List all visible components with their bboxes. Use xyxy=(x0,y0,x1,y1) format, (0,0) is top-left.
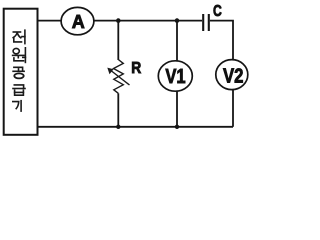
wire: V1 branch bottom xyxy=(176,91,178,127)
svg-text:A: A xyxy=(72,12,85,32)
power supply box PS1 xyxy=(4,9,38,135)
rheostat arrow across R xyxy=(107,68,129,85)
wire: V1 branch top xyxy=(176,21,178,61)
wire: box top to ammeter xyxy=(38,20,62,22)
svg-text:V1: V1 xyxy=(165,65,185,88)
급 xyxy=(13,85,25,95)
wire: bottom rail xyxy=(38,126,234,128)
wire: capacitor to V2 top corner xyxy=(210,21,233,60)
원 xyxy=(13,48,26,63)
node: junction resistor branch xyxy=(116,18,121,23)
voltmeter V2 xyxy=(216,60,248,90)
resistor R (variable) zigzag xyxy=(114,60,124,94)
node: resistor-rail junction xyxy=(116,125,120,129)
wire: resistor branch top xyxy=(117,21,119,60)
svg-text:R: R xyxy=(131,60,141,77)
node: V1-rail junction xyxy=(175,125,179,129)
공 xyxy=(13,67,24,78)
wire: V2 bottom to rail corner xyxy=(232,90,234,127)
label 전원공급기 (power supply, vertical hangul drawn as strokes) xyxy=(13,30,26,111)
ammeter A xyxy=(61,7,94,34)
voltmeter V1 xyxy=(158,61,192,91)
전 xyxy=(13,30,25,43)
capacitor C1 plates xyxy=(203,14,209,31)
node: junction V1 branch xyxy=(175,18,180,23)
wire: resistor branch bottom xyxy=(117,93,119,127)
기 xyxy=(13,101,21,111)
svg-text:C: C xyxy=(213,3,222,20)
svg-text:V2: V2 xyxy=(223,65,244,88)
wire: ammeter to capacitor (top rail) xyxy=(94,20,202,22)
